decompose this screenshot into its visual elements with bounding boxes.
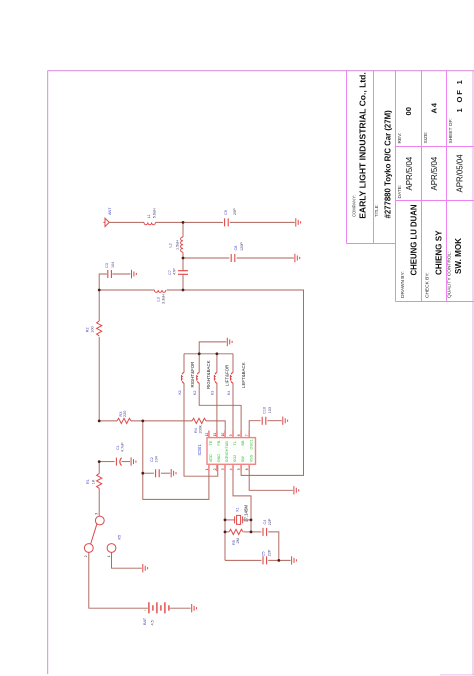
svg-text:11: 11 — [213, 433, 217, 437]
svg-text:C4: C4 — [263, 520, 267, 525]
svg-text:DRAWN BY:: DRAWN BY: — [400, 271, 406, 298]
svg-text:27.145M: 27.145M — [244, 505, 249, 522]
svg-text:22P: 22P — [268, 549, 272, 556]
svg-text:C9: C9 — [224, 210, 228, 215]
svg-text:L1: L1 — [147, 214, 151, 218]
svg-text:VSS: VSS — [249, 454, 253, 462]
svg-text:C10: C10 — [262, 407, 266, 414]
svg-text:7: 7 — [245, 434, 249, 436]
svg-text:C7: C7 — [168, 270, 172, 275]
svg-text:5.6uH: 5.6uH — [153, 208, 157, 218]
svg-text:FB: FB — [217, 440, 221, 445]
svg-text:104: 104 — [111, 262, 115, 268]
svg-text:1: 1 — [205, 468, 209, 470]
svg-text:IC001: IC001 — [197, 444, 202, 456]
svg-text:22P: 22P — [268, 518, 272, 525]
svg-text:VDD: VDD — [209, 454, 213, 462]
svg-text:103: 103 — [268, 407, 272, 413]
svg-text:APR/5/04: APR/5/04 — [430, 156, 439, 190]
svg-text:12: 12 — [205, 433, 209, 437]
svg-text:RIGHT&B: RIGHT&B — [225, 441, 229, 458]
svg-text:TITLE:: TITLE: — [374, 204, 379, 217]
svg-text:CHEUNG LU DUAN: CHEUNG LU DUAN — [409, 204, 418, 275]
svg-text:K3: K3 — [211, 391, 215, 395]
svg-text:10: 10 — [221, 433, 225, 437]
svg-text:47P: 47P — [172, 268, 176, 275]
svg-text:6: 6 — [245, 468, 249, 470]
svg-text:C8: C8 — [234, 246, 238, 251]
svg-text:R2: R2 — [86, 327, 90, 332]
svg-text:C5: C5 — [262, 552, 266, 557]
svg-text:2M: 2M — [236, 538, 240, 543]
svg-text:K4: K4 — [227, 391, 231, 395]
svg-text:K1: K1 — [178, 390, 182, 394]
svg-text:4.5: 4.5 — [151, 620, 155, 625]
svg-text:BAT: BAT — [143, 617, 147, 625]
svg-text:OSC1: OSC1 — [249, 439, 253, 449]
svg-text:SW. MOK: SW. MOK — [454, 238, 463, 274]
svg-text:C3: C3 — [105, 263, 109, 268]
svg-text:1 OF 1: 1 OF 1 — [455, 78, 464, 112]
svg-text:LEFT&BACK: LEFT&BACK — [241, 362, 246, 388]
svg-text:CHIENG SY: CHIENG SY — [434, 230, 443, 275]
svg-text:APR/5/04: APR/5/04 — [405, 156, 414, 190]
svg-text:1.5uH: 1.5uH — [175, 240, 179, 250]
svg-text:LIFT&FOR: LIFT&FOR — [224, 365, 229, 386]
svg-text:REV:: REV: — [397, 132, 403, 143]
svg-text:SO2: SO2 — [233, 455, 237, 463]
svg-text:2: 2 — [84, 555, 88, 557]
svg-text:BB: BB — [241, 440, 245, 446]
svg-text:4: 4 — [229, 468, 233, 470]
svg-text:SC: SC — [225, 457, 229, 463]
svg-text:#277880 Toyko R/C Car (27M): #277880 Toyko R/C Car (27M) — [383, 110, 392, 219]
svg-text:1K: 1K — [92, 479, 96, 484]
svg-text:104: 104 — [154, 456, 158, 462]
svg-text:RIGHT&BACK: RIGHT&BACK — [206, 360, 211, 389]
svg-text:EARLY LIGHT INDUSTRIAL Co., Lt: EARLY LIGHT INDUSTRIAL Co., Ltd. — [358, 72, 368, 219]
svg-text:2: 2 — [213, 468, 217, 470]
svg-text:SIZE:: SIZE: — [423, 132, 429, 144]
svg-text:K5: K5 — [118, 535, 122, 540]
svg-text:ANT: ANT — [108, 207, 112, 215]
svg-text:5: 5 — [237, 468, 241, 470]
svg-text:C1: C1 — [116, 445, 120, 450]
svg-text:R4: R4 — [194, 428, 198, 433]
svg-text:SHEET OF:: SHEET OF: — [448, 118, 454, 143]
svg-text:QUALITY CONTROL:: QUALITY CONTROL: — [447, 251, 453, 298]
svg-text:220: 220 — [123, 411, 127, 417]
svg-text:3: 3 — [95, 513, 99, 515]
svg-text:1: 1 — [107, 555, 111, 557]
svg-text:3: 3 — [221, 468, 225, 470]
svg-text:CHECK BY:: CHECK BY: — [425, 272, 431, 298]
svg-text:8: 8 — [237, 434, 241, 436]
svg-text:20P: 20P — [233, 208, 237, 215]
svg-text:4.7uF: 4.7uF — [121, 442, 125, 452]
svg-text:L2: L2 — [169, 243, 173, 247]
svg-text:R1: R1 — [86, 479, 90, 484]
svg-text:X1: X1 — [236, 507, 240, 512]
svg-text:C2: C2 — [150, 457, 154, 462]
svg-text:9: 9 — [229, 434, 233, 436]
svg-text:TL: TL — [233, 441, 237, 445]
svg-text:00: 00 — [404, 107, 413, 115]
svg-text:100: 100 — [91, 326, 95, 332]
svg-text:200k: 200k — [199, 425, 203, 433]
svg-text:DATE:: DATE: — [397, 185, 403, 199]
svg-text:A4: A4 — [430, 102, 439, 113]
svg-text:L3: L3 — [157, 297, 161, 301]
svg-text:GND: GND — [217, 454, 221, 463]
svg-text:3.3uH: 3.3uH — [162, 294, 166, 304]
svg-text:K2: K2 — [193, 391, 197, 395]
svg-text:SW: SW — [241, 456, 245, 463]
svg-text:TE: TE — [209, 440, 213, 445]
svg-text:120P: 120P — [240, 242, 244, 251]
svg-text:COMPANY:: COMPANY: — [352, 195, 357, 217]
svg-text:APR/05/04: APR/05/04 — [455, 154, 464, 193]
svg-text:+: + — [144, 608, 146, 612]
svg-text:RIGHT&FOR: RIGHT&FOR — [190, 362, 195, 388]
